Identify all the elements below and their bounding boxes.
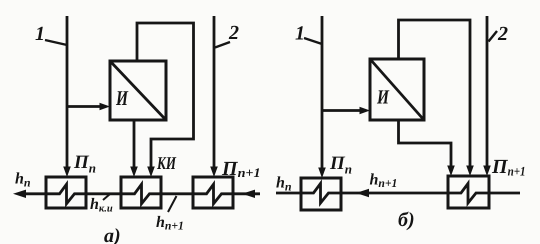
node label 2 (scheme a) with leader xyxy=(215,22,239,48)
svg-text:Пп: Пп xyxy=(329,153,352,177)
wire: feedwater line 1 (scheme b) vertical xyxy=(318,16,326,178)
svg-text:hк.и: hк.и xyxy=(90,196,113,215)
wire: condensate main line with heater zigzags (scheme b) xyxy=(276,184,520,204)
value label h_к.и with leader (scheme a) xyxy=(90,194,113,215)
svg-text:hп+1: hп+1 xyxy=(156,214,184,233)
node label 1 (scheme b) with leader xyxy=(295,23,322,45)
evaporator U1 "И" (scheme a) box with diagonal xyxy=(110,61,166,120)
arrow: condensate outflow left end (scheme a) xyxy=(13,190,26,198)
wire: tap from line 1 into evaporator И (scheme b) xyxy=(322,107,370,115)
svg-text:1: 1 xyxy=(295,23,305,45)
heater Пп+1 (scheme a) box xyxy=(193,177,233,208)
junction arrow into КИ from loop (scheme a) xyxy=(147,167,155,178)
value label h_п (scheme a) xyxy=(15,171,31,190)
wire: И top loop over to Пп+1 heater (scheme b) xyxy=(399,20,474,176)
heater Пп (scheme b) box xyxy=(301,178,341,210)
wire: И bottom outlet stepped down to Пп+1 (scheme b) xyxy=(399,120,455,176)
wire: И top loop over to КИ heater (scheme a) xyxy=(137,23,194,168)
svg-text:1: 1 xyxy=(35,23,45,45)
svg-text:Пп+1: Пп+1 xyxy=(221,158,261,180)
wire: condensate main line with heater zigzags (scheme a) xyxy=(22,184,260,204)
wire: tap from line 1 into evaporator И (scheme a) xyxy=(67,103,110,111)
svg-text:2: 2 xyxy=(497,23,508,45)
evaporator U2 "И" (scheme b) box with diagonal xyxy=(370,59,424,120)
svg-text:б): б) xyxy=(398,209,415,231)
svg-text:Пп+1: Пп+1 xyxy=(491,156,526,179)
svg-text:И: И xyxy=(376,87,390,109)
value label h_п+1 with leader (scheme a) xyxy=(156,196,184,233)
wire: И bottom outlet down to КИ heater (scheme a) xyxy=(130,120,138,177)
svg-text:И: И xyxy=(115,86,128,110)
svg-text:hп: hп xyxy=(276,175,292,194)
wire: steam line 2 (scheme a) vertical xyxy=(210,16,218,177)
svg-text:КИ: КИ xyxy=(156,153,176,173)
svg-text:hп+1: hп+1 xyxy=(370,172,398,191)
arrow: condensate flow mid-line (scheme b) xyxy=(356,189,369,197)
svg-text:2: 2 xyxy=(228,22,239,44)
arrow: inflow from right into Пп+1 (scheme a) xyxy=(242,190,255,198)
node label 1 (scheme a) with leader xyxy=(35,23,67,45)
svg-text:а): а) xyxy=(104,225,121,244)
heater Пп (scheme a) box xyxy=(46,177,86,208)
wire: feedwater line 1 (scheme a) vertical xyxy=(63,16,71,177)
svg-text:Пп: Пп xyxy=(73,152,96,176)
svg-text:hп: hп xyxy=(15,171,31,190)
heater Пп+1 (scheme b) box xyxy=(448,176,489,208)
heater КИ (scheme a) box xyxy=(121,177,161,208)
node label 2 (scheme b) with leader xyxy=(489,23,509,45)
wire: steam line 2 (scheme b) vertical xyxy=(483,16,491,176)
